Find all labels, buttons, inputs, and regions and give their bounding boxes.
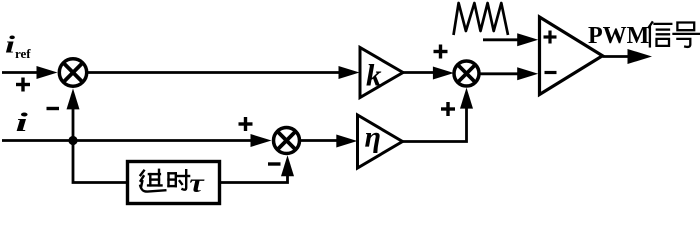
- summing junction S3: [454, 61, 479, 86]
- svg-text:PWM: PWM: [588, 23, 649, 49]
- summing junction S2: [274, 128, 300, 154]
- plus sign at i input of summer S2: [239, 117, 253, 131]
- wire node down to delay block: [73, 141, 127, 183]
- label 信 (hand-drawn CJK glyph): [649, 22, 672, 46]
- minus sign at delay input of summer S2: [268, 162, 281, 165]
- svg-text:ref: ref: [15, 46, 31, 61]
- plus sign at eta input of summer S3: [441, 102, 455, 116]
- label 时 (hand-drawn CJK glyph): [169, 170, 190, 190]
- minus sign at feedback input of summer S1: [47, 107, 60, 110]
- plus sign at k input of summer S3: [434, 45, 448, 59]
- delay block box: [128, 162, 220, 204]
- node label i_ref: [5, 31, 31, 61]
- wire carrier to comparator plus input: [483, 33, 538, 46]
- gain block eta (triangle): [358, 115, 403, 168]
- comparator U1 (triangle): [540, 17, 603, 95]
- svg-text:i: i: [16, 108, 28, 137]
- label 号 (hand-drawn CJK glyph): [674, 23, 700, 47]
- svg-text:k: k: [366, 58, 382, 93]
- wire i_ref input: [2, 66, 58, 79]
- wire S2 to gain eta: [300, 135, 358, 148]
- wire node to S1 (vertical arrow): [67, 88, 80, 140]
- summing junction S1: [59, 59, 86, 86]
- wire S3 to comparator minus input: [479, 67, 538, 80]
- triangle carrier waveform: [454, 3, 509, 35]
- label 延 (hand-drawn CJK glyph): [140, 170, 165, 192]
- wire i input rail: [2, 134, 272, 147]
- plus sign at i_ref input of summer S1: [16, 78, 30, 92]
- wire delay block to summer S2: [220, 155, 295, 182]
- wire eta to summer S3: [403, 88, 474, 142]
- gain block k (triangle): [360, 48, 403, 98]
- wire k to summer S3: [403, 67, 454, 80]
- svg-text:i: i: [5, 31, 16, 58]
- wire S1 to gain k: [87, 66, 360, 79]
- junction dot on i rail: [68, 136, 77, 145]
- svg-text:η: η: [365, 121, 381, 154]
- wire comparator output: [603, 49, 653, 64]
- svg-text:τ: τ: [189, 169, 204, 197]
